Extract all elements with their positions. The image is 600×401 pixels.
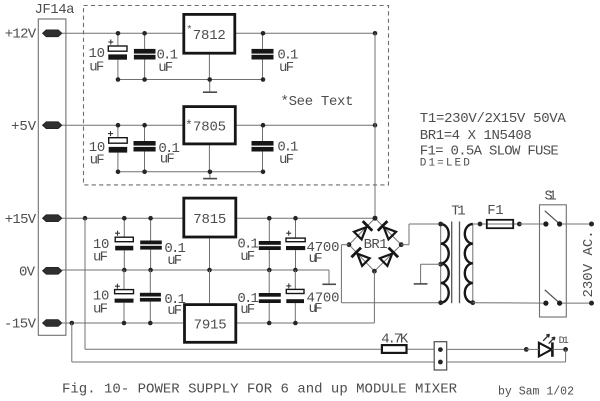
resistor R1 4.7K body (382, 345, 407, 353)
node AC neutral end (589, 301, 594, 306)
capacitor C11 10uF (115, 270, 134, 323)
wire 7805 input (237, 124, 376, 126)
wire LED return (565, 349, 567, 362)
wire fuse feed (480, 223, 519, 225)
junction dot LED anode (524, 347, 529, 352)
wire 0V rail (62, 269, 329, 271)
svg-text:7815: 7815 (193, 212, 226, 228)
svg-text:+12V: +12V (5, 27, 37, 43)
node LED return (563, 347, 568, 352)
svg-text:*See Text: *See Text (281, 94, 354, 110)
ground near 7812 (203, 80, 217, 93)
ground near 7805 (203, 172, 217, 179)
svg-text:BR1=4 X 1N5408: BR1=4 X 1N5408 (420, 128, 532, 144)
S1 top pole lever (545, 211, 559, 223)
svg-text:7812: 7812 (193, 28, 226, 44)
diode D3 (BR1 top-right) (378, 221, 396, 239)
svg-text:uF: uF (279, 60, 294, 76)
svg-text:+5V: +5V (11, 119, 37, 135)
regulator U2 7805 (184, 107, 236, 144)
wire BR1 frame (349, 218, 375, 245)
svg-text:uF: uF (240, 249, 255, 265)
wire 7812 input (236, 32, 375, 34)
regulator U1 7812 (184, 14, 235, 53)
T1 core (451, 222, 453, 304)
LED D1 arrows (543, 334, 549, 341)
svg-text:uF: uF (309, 251, 323, 267)
wire 7805 gnd pin (208, 145, 210, 172)
svg-text:uF: uF (158, 60, 173, 76)
svg-text:uF: uF (160, 152, 175, 168)
svg-text:uF: uF (89, 59, 104, 75)
svg-text:uF: uF (90, 152, 105, 168)
capacitor C14 4700uF (286, 270, 304, 323)
svg-text:T1: T1 (451, 203, 466, 219)
capacitor C3 0.1uF (252, 33, 274, 79)
wire +15V tap down (84, 218, 86, 349)
svg-text:S1: S1 (545, 190, 557, 205)
node BR1 top (373, 216, 378, 221)
svg-text:4.7K: 4.7K (381, 331, 409, 347)
capacitor C8 0.1uF (140, 218, 162, 270)
pin +15V (43, 215, 62, 222)
diode D5 (BR1 bottom-right) (380, 248, 398, 266)
wire fuse to S1 (519, 223, 546, 225)
node BR1 bottom (372, 269, 377, 274)
S1 bottom pole lever (545, 290, 559, 302)
fuse F1 body (487, 220, 513, 228)
dashed enclosure (see text) (84, 6, 389, 185)
svg-text:uF: uF (167, 303, 182, 319)
svg-text:+15V: +15V (5, 212, 37, 228)
junction dots 7805 row (116, 123, 121, 128)
capacitor C5 0.1uF (134, 125, 156, 172)
wire 7812 gnd rail (118, 79, 263, 81)
capacitor C1 10uF (108, 33, 127, 79)
wire BR1 left to T1 secondary bottom (341, 244, 349, 246)
wire 7915 gnd pin (209, 270, 211, 303)
wire S1 bottom to AC (560, 302, 592, 304)
svg-text:uF: uF (93, 301, 108, 317)
T1 terminal dots (438, 222, 443, 227)
wire -15V tap down (71, 323, 73, 362)
diode D2 (BR1 top-left) (354, 221, 372, 239)
capacitor C9 0.1uF (259, 218, 281, 270)
svg-text:uF: uF (167, 253, 182, 269)
pin 0V (43, 267, 62, 274)
svg-text:7805: 7805 (193, 119, 226, 135)
svg-text:*: * (186, 25, 192, 37)
regulator U4 7915 (185, 305, 236, 343)
wire +5V rail left (62, 124, 183, 126)
ground at T1 center tap (414, 283, 428, 285)
node BR1 left (347, 242, 352, 247)
ground at 0V rail (322, 270, 336, 284)
svg-text:-15V: -15V (4, 317, 37, 333)
connector JF14a body (38, 19, 66, 335)
svg-text:230V AC.: 230V AC. (581, 230, 597, 297)
wire 7815 gnd pin (209, 238, 211, 270)
wire BR1 minus to -15V rail (373, 271, 375, 323)
junction dots 7812 row (116, 31, 121, 36)
wire 7805 gnd rail (118, 171, 263, 173)
wire S1 top to AC (560, 223, 592, 225)
LED D1 triangle (539, 343, 552, 357)
junction dots 0V row (122, 268, 127, 273)
pin +12V (43, 30, 62, 37)
svg-text:BR1: BR1 (364, 237, 388, 253)
wire T1 primary top jog (473, 223, 480, 225)
capacitor C10 4700uF (286, 218, 305, 270)
capacitor C4 10uF (108, 125, 127, 172)
wire regulator input feed (374, 33, 376, 218)
wire R1 to block (408, 348, 435, 350)
svg-text:by Sam 1/02: by Sam 1/02 (498, 385, 574, 398)
svg-text:D1: D1 (559, 336, 569, 347)
capacitor C6 0.1uF (252, 125, 274, 172)
svg-text:0V: 0V (19, 265, 36, 281)
svg-text:JF14a: JF14a (35, 2, 75, 18)
wire +15V rail left (62, 217, 183, 219)
capacitor C12 0.1uF (140, 270, 161, 323)
svg-text:uF: uF (240, 302, 255, 318)
wire T1 center tap to ground (421, 263, 441, 265)
svg-text:F1: F1 (487, 203, 504, 219)
connector block pins (438, 347, 443, 352)
S1 bottom contacts (543, 301, 548, 306)
wire T1 primary bottom to S1 (473, 302, 546, 304)
junction dots +15V row (83, 216, 88, 221)
wire -15V rail left (62, 322, 183, 324)
wire 7812 gnd pin (208, 54, 210, 80)
junction dots fuse (478, 222, 483, 227)
junction dots -15V row (70, 321, 75, 326)
pin +5V (43, 122, 62, 129)
node BR1 right (399, 242, 404, 247)
capacitor C7 10uF (115, 218, 133, 270)
connector block body (434, 342, 447, 370)
node AC line end (589, 222, 594, 227)
capacitor C2 0.1uF (134, 33, 156, 79)
svg-text:*: * (185, 118, 193, 133)
wire 7815 input (237, 217, 375, 219)
wire BR1 right to T1 secondary top (401, 244, 409, 246)
svg-text:Fig. 10- POWER SUPPLY FOR 6 an: Fig. 10- POWER SUPPLY FOR 6 and up MODUL… (62, 382, 458, 398)
pin -15V (43, 320, 62, 327)
wire +12V rail left (62, 32, 183, 34)
S1 top contacts (543, 221, 548, 226)
T1 secondary winding (440, 224, 442, 303)
capacitor C13 0.1uF (259, 270, 281, 323)
wire 7915 input (237, 322, 374, 324)
diode D4 (BR1 bottom-left) (351, 248, 369, 266)
svg-text:uF: uF (279, 152, 294, 168)
svg-text:uF: uF (309, 301, 323, 317)
wire block to LED (447, 348, 527, 350)
svg-text:7915: 7915 (194, 318, 227, 334)
svg-text:uF: uF (93, 250, 108, 266)
LED D1 cathode bar (551, 342, 554, 356)
svg-text:T1=230V/2X15V 50VA: T1=230V/2X15V 50VA (420, 111, 567, 127)
T1 primary winding (472, 224, 474, 303)
wire LED cathode out (552, 348, 565, 350)
switch S1 body (540, 205, 567, 317)
regulator U3 7815 (184, 198, 236, 237)
